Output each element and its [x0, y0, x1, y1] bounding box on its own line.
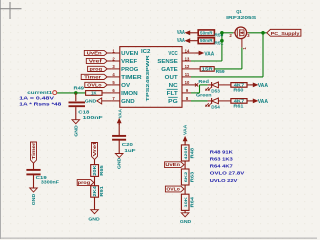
- svg-text:VAA: VAA: [258, 99, 268, 105]
- svg-text:OVLo: OVLo: [87, 82, 102, 87]
- svg-text:GND: GND: [31, 194, 36, 205]
- svg-text:GND: GND: [88, 216, 99, 221]
- svg-text:GND: GND: [73, 125, 78, 136]
- svg-text:PG: PG: [168, 99, 178, 105]
- svg-text:GND: GND: [121, 99, 135, 105]
- svg-text:3300nF: 3300nF: [41, 179, 59, 184]
- svg-text:UVEN: UVEN: [121, 51, 138, 57]
- svg-text:Timer: Timer: [31, 142, 36, 159]
- svg-text:OVLo: OVLo: [166, 187, 180, 192]
- svg-text:IRF3205S: IRF3205S: [226, 15, 257, 21]
- svg-text:C18: C18: [78, 110, 90, 115]
- svg-text:IMON: IMON: [121, 91, 138, 97]
- svg-text:R64 4K7: R64 4K7: [210, 164, 233, 169]
- svg-text:VREF: VREF: [121, 59, 138, 65]
- svg-text:GND: GND: [180, 219, 191, 224]
- svg-text:C20: C20: [122, 142, 134, 147]
- svg-text:10K: 10K: [183, 197, 188, 208]
- svg-text:GND: GND: [85, 98, 96, 103]
- svg-text:VAA: VAA: [204, 51, 214, 57]
- svg-text:UVLO 22V: UVLO 22V: [210, 178, 239, 183]
- svg-text:TPS2493PWR: TPS2493PWR: [145, 54, 150, 101]
- svg-text:TIMER: TIMER: [121, 75, 142, 81]
- svg-text:Vref: Vref: [92, 142, 97, 157]
- svg-text:D53: D53: [211, 89, 220, 94]
- svg-text:R60: R60: [233, 88, 244, 93]
- svg-text:Q1: Q1: [236, 9, 242, 15]
- svg-text:OVLO 27.8V: OVLO 27.8V: [210, 171, 246, 176]
- svg-text:1A = 0.48V: 1A = 0.48V: [19, 96, 55, 101]
- svg-text:VAA: VAA: [258, 83, 268, 89]
- svg-text:VAA: VAA: [177, 30, 185, 36]
- svg-text:current1: current1: [27, 90, 53, 95]
- svg-text:R61: R61: [233, 104, 244, 109]
- svg-text:Vref: Vref: [89, 59, 103, 64]
- svg-text:20K: 20K: [92, 165, 97, 176]
- svg-text:R48 91K: R48 91K: [210, 149, 234, 154]
- svg-text:R48: R48: [189, 147, 194, 158]
- svg-text:D54: D54: [211, 105, 220, 110]
- svg-text:SENSE: SENSE: [157, 59, 178, 65]
- svg-text:OUT: OUT: [165, 75, 179, 81]
- svg-text:OV: OV: [121, 83, 130, 89]
- svg-text:1uF: 1uF: [124, 148, 135, 153]
- svg-text:prog: prog: [90, 66, 103, 71]
- svg-text:R49: R49: [74, 85, 85, 90]
- svg-text:R65: R65: [99, 164, 104, 175]
- svg-text:R64: R64: [189, 196, 194, 207]
- svg-text:10: 10: [185, 80, 190, 85]
- svg-text:prog: prog: [78, 180, 91, 185]
- svg-text:12: 12: [185, 64, 190, 69]
- svg-text:VAA: VAA: [177, 38, 185, 44]
- svg-text:Timer: Timer: [84, 74, 101, 79]
- svg-text:100nF: 100nF: [83, 115, 103, 120]
- svg-text:FLT: FLT: [167, 91, 179, 97]
- svg-text:2K4: 2K4: [92, 185, 97, 197]
- svg-text:Red: Red: [198, 79, 209, 84]
- svg-text:VAA: VAA: [117, 108, 122, 118]
- svg-text:Green: Green: [196, 93, 212, 98]
- svg-text:1K: 1K: [91, 91, 96, 96]
- svg-text:GATE: GATE: [161, 67, 178, 73]
- svg-text:VCC: VCC: [168, 51, 177, 57]
- svg-text:IC2: IC2: [141, 49, 151, 55]
- svg-text:13: 13: [185, 56, 190, 61]
- svg-text:NC: NC: [169, 83, 178, 89]
- svg-text:50mR: 50mR: [200, 38, 213, 43]
- svg-text:GND: GND: [117, 158, 122, 169]
- svg-text:15R: 15R: [202, 66, 213, 71]
- svg-text:UvEn: UvEn: [165, 162, 180, 167]
- svg-text:4K7: 4K7: [234, 98, 245, 103]
- svg-text:R63 1K3: R63 1K3: [210, 157, 233, 162]
- svg-text:11: 11: [185, 72, 190, 77]
- svg-text:R59: R59: [216, 69, 226, 74]
- svg-text:6K2: 6K2: [183, 171, 188, 183]
- svg-text:4K7: 4K7: [234, 82, 245, 87]
- svg-text:PC_Supply: PC_Supply: [271, 31, 300, 37]
- svg-text:14: 14: [185, 48, 190, 53]
- svg-text:R63: R63: [189, 171, 194, 182]
- svg-text:50mR: 50mR: [200, 30, 213, 35]
- svg-text:PROG: PROG: [121, 67, 138, 73]
- svg-text:UvEn: UvEn: [87, 51, 102, 56]
- svg-text:420R: 420R: [183, 146, 188, 159]
- svg-text:1A * Rsns *48: 1A * Rsns *48: [19, 101, 62, 106]
- svg-text:VAA: VAA: [183, 124, 188, 135]
- svg-text:R91: R91: [99, 185, 104, 196]
